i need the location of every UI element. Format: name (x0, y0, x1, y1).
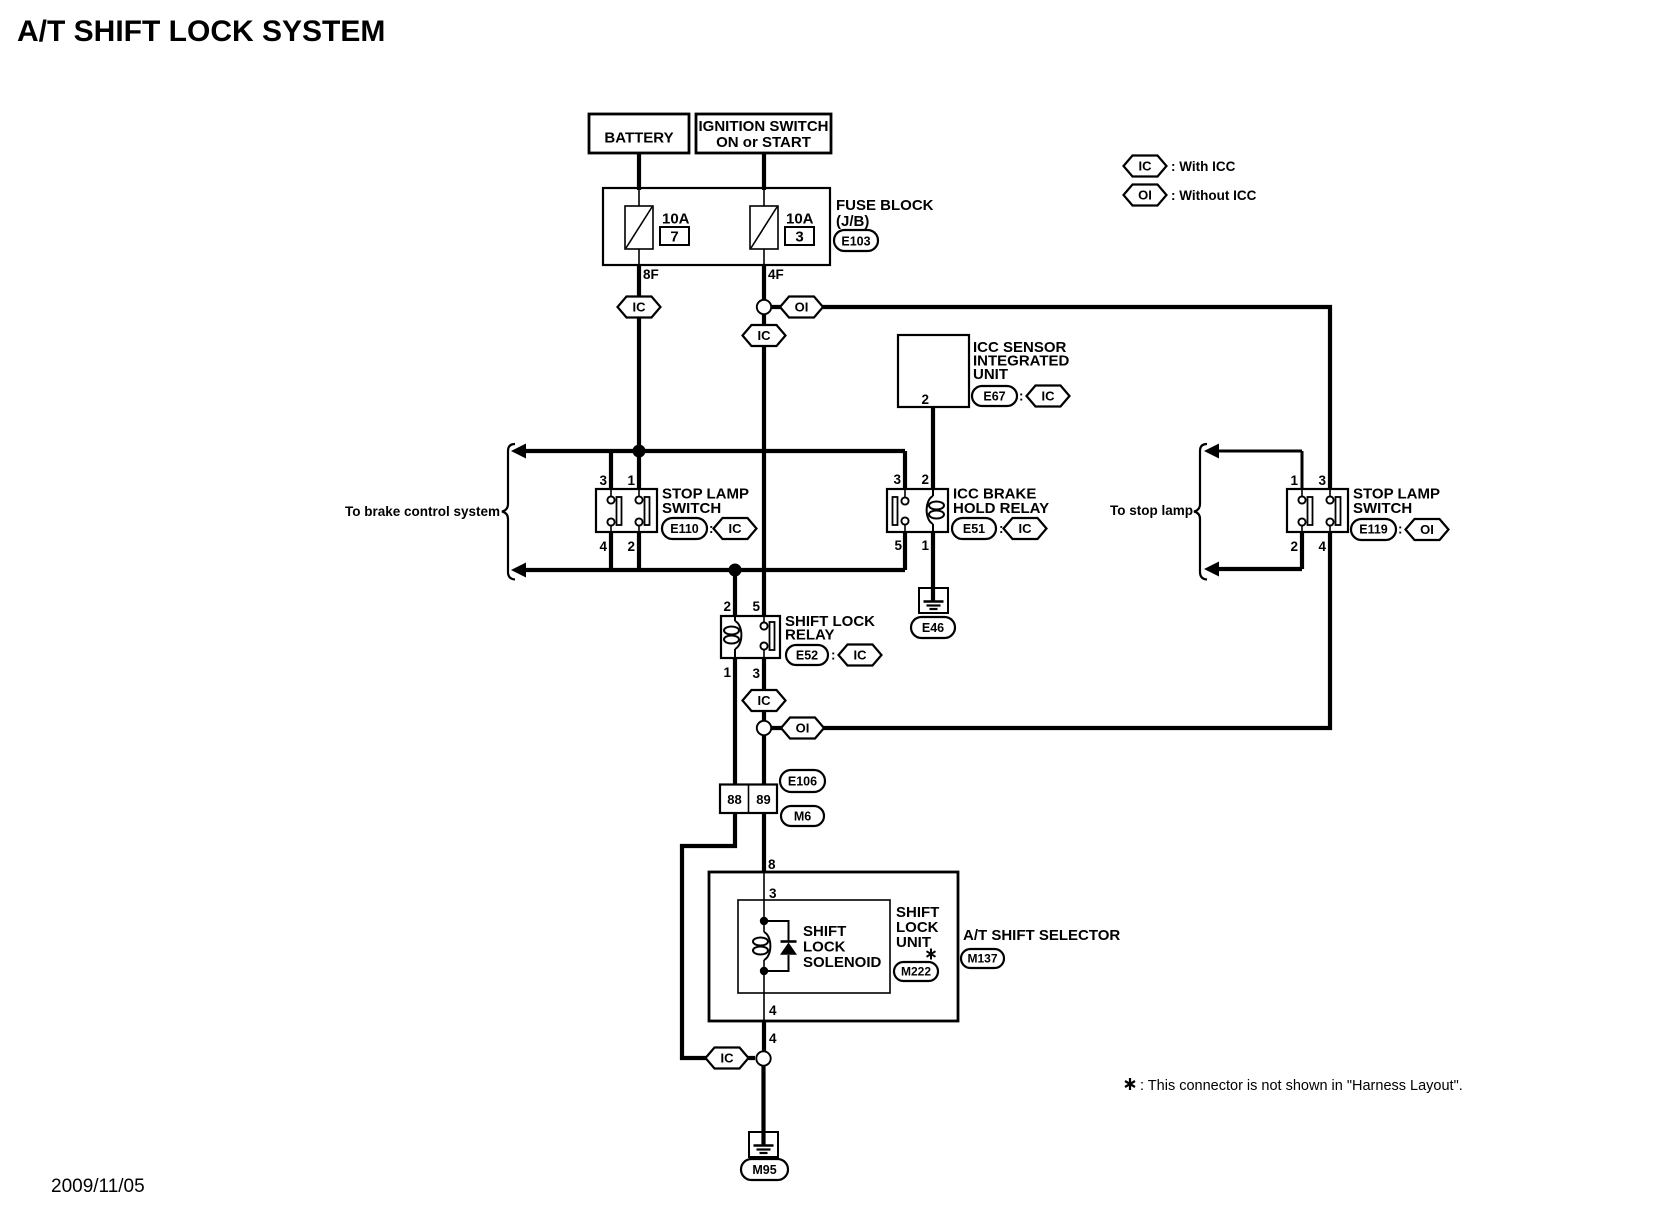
svg-text:SWITCH: SWITCH (662, 500, 721, 517)
fuse 10A No.7 (625, 206, 690, 249)
hexagon OI top (780, 297, 823, 318)
wire ignition to fuse block (762, 153, 766, 190)
connector E110 (662, 518, 757, 539)
wire node to ground M95 (761, 1066, 765, 1146)
svg-text:5: 5 (894, 538, 902, 553)
wire junction to relay pin 2 (733, 570, 737, 617)
svg-text::: : (1398, 522, 1403, 537)
wire stop lamp switch pin 2 down (637, 532, 641, 570)
wire 4F down (762, 265, 766, 301)
stop lamp switch E110 (596, 473, 749, 554)
shift lock unit box M222 (738, 900, 939, 993)
fuse block E103 (603, 188, 830, 265)
node junction shift lock relay feed (729, 564, 742, 577)
svg-text:IC: IC (721, 1051, 735, 1066)
connector M137 (961, 949, 1004, 968)
svg-text:4: 4 (599, 539, 607, 554)
svg-text:: With ICC: : With ICC (1171, 159, 1236, 174)
svg-text:IC: IC (1042, 389, 1056, 404)
svg-text:E46: E46 (922, 621, 944, 635)
svg-text:7: 7 (670, 229, 678, 246)
brace to brake control (502, 444, 515, 580)
svg-text:10A: 10A (662, 211, 690, 228)
svg-text:IC: IC (729, 521, 743, 536)
wire to brake control bottom (524, 568, 905, 572)
svg-text:OI: OI (795, 300, 809, 315)
battery (589, 114, 689, 153)
icc sensor integrated unit (898, 335, 1070, 407)
asterisk M222 (927, 949, 936, 960)
footnote (1125, 1078, 1463, 1094)
legend OI (1124, 185, 1257, 206)
svg-text:ON or START: ON or START (716, 134, 811, 151)
node OI split (757, 300, 771, 314)
svg-text:UNIT: UNIT (973, 366, 1008, 383)
svg-text:IC: IC (758, 328, 772, 343)
wire E119 pin1 up (1301, 451, 1304, 490)
svg-text:2009/11/05: 2009/11/05 (51, 1176, 145, 1197)
svg-text:2: 2 (1290, 539, 1298, 554)
svg-text:1: 1 (723, 665, 731, 680)
svg-text:OI: OI (796, 721, 810, 736)
svg-text:: This connector is not shown: : This connector is not shown in "Harnes… (1140, 1078, 1463, 1094)
svg-text:3: 3 (752, 666, 760, 681)
svg-text:To brake control system: To brake control system (345, 504, 500, 519)
svg-text:3: 3 (1318, 473, 1326, 488)
svg-text:To stop lamp: To stop lamp (1110, 503, 1193, 518)
svg-text:88: 88 (727, 792, 741, 807)
hexagon IC bottom (706, 1048, 749, 1069)
ground E46 (911, 588, 955, 638)
wire 8F down (637, 265, 641, 297)
wire icc brake hold relay pin 3 up (903, 451, 907, 490)
connector E106 (780, 770, 825, 792)
svg-text::: : (831, 648, 836, 663)
wire icc relay pin 1 to ground (931, 532, 935, 602)
svg-text:1: 1 (627, 473, 635, 488)
svg-text:2: 2 (921, 472, 929, 487)
fuse block label (836, 197, 934, 230)
ground M95 (741, 1132, 788, 1180)
svg-text:UNIT: UNIT (896, 934, 931, 951)
connector E51 (952, 518, 1047, 539)
svg-text:4: 4 (769, 1031, 777, 1046)
arrow to stop lamp top (1204, 444, 1219, 459)
connector E119 (1351, 519, 1449, 540)
svg-text:A/T SHIFT SELECTOR: A/T SHIFT SELECTOR (963, 927, 1120, 944)
node OI split bottom (757, 721, 771, 735)
wire 4F to shift lock relay pin 5 (762, 346, 766, 617)
svg-text:4: 4 (1318, 539, 1326, 554)
connector M6 (781, 806, 824, 826)
wire OI loop top (770, 307, 1330, 490)
svg-text:3: 3 (795, 229, 803, 246)
svg-text:10A: 10A (786, 211, 814, 228)
svg-text:IGNITION SWITCH: IGNITION SWITCH (699, 118, 829, 135)
svg-text:M222: M222 (901, 965, 931, 979)
legend IC (1124, 156, 1236, 177)
connector box 88 89 (720, 785, 777, 814)
wire 89 to selector box (762, 813, 766, 872)
wire solenoid to pin 4 (763, 971, 765, 1021)
wire pin 8 to solenoid (763, 872, 765, 917)
fuse 10A No.3 (750, 206, 814, 249)
wire 4F below node (762, 314, 766, 327)
svg-text:LOCK: LOCK (803, 939, 846, 956)
svg-text:2: 2 (921, 392, 929, 407)
svg-text:1: 1 (1290, 473, 1298, 488)
svg-text:M95: M95 (752, 1163, 776, 1177)
ignition switch (696, 114, 831, 153)
svg-text:M6: M6 (794, 810, 811, 824)
svg-text:2: 2 (627, 539, 635, 554)
wire stop lamp switch pin 3 up (609, 451, 613, 490)
node bottom (756, 1051, 770, 1065)
svg-text:E51: E51 (963, 522, 985, 536)
icc brake hold relay E51 (887, 472, 1049, 553)
shift lock relay E52 (721, 599, 875, 681)
svg-text:4: 4 (769, 1003, 777, 1018)
svg-text:HOLD RELAY: HOLD RELAY (953, 500, 1049, 517)
svg-text:OI: OI (1138, 188, 1152, 203)
wire E119 pin2 down (1300, 532, 1304, 569)
arrow to brake control bottom (511, 563, 526, 578)
svg-text:8: 8 (768, 857, 776, 872)
wire icc sensor to relay coil (931, 407, 935, 490)
svg-text:E110: E110 (670, 522, 699, 536)
arrow to stop lamp bottom (1204, 562, 1219, 577)
svg-text:3: 3 (893, 472, 901, 487)
svg-text:3: 3 (599, 473, 607, 488)
stop lamp switch E119 (1287, 473, 1440, 554)
diode (764, 921, 797, 971)
wire 8F below IC (637, 318, 641, 490)
shift lock solenoid (753, 917, 882, 975)
brace to stop lamp (1194, 444, 1207, 580)
wire below node to 89 (762, 735, 766, 784)
wire relay pin 1 down (733, 658, 737, 784)
svg-text:IC: IC (758, 693, 772, 708)
wire icc brake hold relay pin 5 down (903, 532, 907, 570)
svg-text:IC: IC (1139, 159, 1153, 174)
svg-text:E103: E103 (841, 235, 870, 249)
wire 88 down-left to node (682, 813, 755, 1058)
svg-text:E52: E52 (796, 649, 818, 663)
svg-text:(J/B): (J/B) (836, 213, 869, 230)
svg-text:M137: M137 (967, 952, 997, 966)
node junction battery stop lamp (633, 445, 646, 458)
connector E103 (834, 230, 878, 251)
svg-text:4F: 4F (768, 267, 784, 282)
svg-text:IC: IC (854, 648, 868, 663)
svg-text:5: 5 (752, 599, 760, 614)
svg-text:FUSE BLOCK: FUSE BLOCK (836, 197, 934, 214)
wire E119 pin2 arrow (1217, 567, 1302, 571)
hexagon IC ignition wire (743, 325, 786, 346)
svg-text:OI: OI (1420, 522, 1434, 537)
svg-text:3: 3 (769, 886, 777, 901)
svg-text:BATTERY: BATTERY (604, 130, 673, 147)
svg-text:E119: E119 (1359, 523, 1388, 537)
wire relay pin 3 down (762, 658, 766, 721)
svg-text:89: 89 (756, 792, 770, 807)
svg-text:IC: IC (633, 300, 647, 315)
wire to brake control top (524, 449, 905, 453)
svg-text:IC: IC (1019, 521, 1033, 536)
svg-text:E106: E106 (788, 775, 817, 789)
svg-text:E67: E67 (983, 390, 1005, 404)
wire selector box to node (762, 1021, 766, 1051)
svg-text:RELAY: RELAY (785, 627, 834, 644)
arrow to brake control top (511, 444, 526, 459)
svg-text:1: 1 (921, 538, 929, 553)
svg-text:SHIFT: SHIFT (803, 923, 846, 940)
connector M222 (894, 962, 938, 981)
wire OI loop bottom (771, 532, 1330, 728)
wire battery to fuse block (637, 153, 641, 190)
svg-text:: Without ICC: : Without ICC (1171, 188, 1257, 203)
hexagon OI bottom (781, 718, 824, 739)
svg-text::: : (1019, 389, 1024, 404)
hexagon IC below relay (743, 690, 786, 711)
wire stop lamp switch pin 4 down (609, 532, 613, 570)
svg-text:2: 2 (723, 599, 731, 614)
svg-text:SOLENOID: SOLENOID (803, 954, 882, 971)
wire E119 pin1 arrow (1217, 450, 1302, 453)
a/t shift selector box M137 (709, 872, 1120, 1021)
hexagon IC battery wire (618, 297, 661, 318)
svg-text:8F: 8F (643, 267, 659, 282)
svg-text:SWITCH: SWITCH (1353, 500, 1412, 517)
svg-text:A/T SHIFT LOCK SYSTEM: A/T SHIFT LOCK SYSTEM (17, 15, 385, 48)
connector E67 (972, 386, 1070, 407)
connector E52 (786, 645, 882, 666)
